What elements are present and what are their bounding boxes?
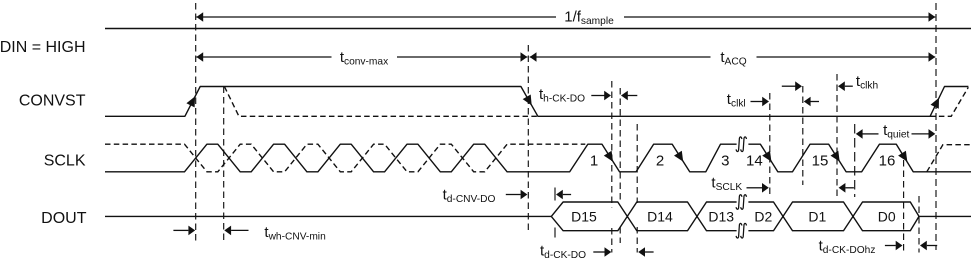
- arrowhead on SCLK falling edge 2: [674, 151, 683, 162]
- ref line: CONVST falling edge x=528.3: [527, 45, 529, 232]
- ref line: SCLK falling edge 15 x=837: [836, 74, 838, 196]
- dimension t_SCLK arrows: [747, 187, 763, 189]
- ref line: next CONVST rising edge x=936: [935, 3, 937, 250]
- DOUT data bus top edge: [551, 202, 919, 216]
- dimension t_clkh arrows: [782, 85, 797, 87]
- svg-text:DOUT: DOUT: [41, 210, 87, 227]
- dimension arrow t_conv-max (left segment): [196, 56, 331, 58]
- wire: DOUT tri-state line (right): [919, 215, 971, 217]
- ref line: DOUT D15 hold end x=620.2 (lower): [619, 227, 621, 243]
- ref line: SCLK falling edge 16 x=903.6: [903, 160, 905, 253]
- break symbol on DOUT bottom edge: [736, 223, 742, 238]
- svg-text:twh-CNV-min: twh-CNV-min: [264, 224, 325, 243]
- ref line: DOUT D15 hold end x=620.2 (upper): [619, 88, 621, 202]
- svg-text:D1: D1: [808, 208, 826, 224]
- svg-text:D14: D14: [647, 208, 673, 224]
- arrowhead on SCLK falling edge 15: [831, 151, 840, 162]
- SCLK waveform (solid): [105, 144, 971, 172]
- ref line: SCLK rising edge 15 x=802.8: [802, 86, 804, 185]
- ref line: SCLK falling edge 14 x=769.8: [769, 93, 771, 196]
- ref line: CONVST min pulse end x=223.7: [223, 87, 225, 242]
- arrowhead on SCLK falling edge 1: [604, 151, 613, 162]
- svg-text:2: 2: [656, 153, 664, 170]
- svg-text:3: 3: [721, 153, 729, 170]
- wire: DOUT tri-state line (left): [105, 215, 551, 217]
- ref line: SCLK falling edge 1 x=611.8 (upper): [611, 81, 613, 207]
- svg-text:15: 15: [812, 153, 829, 170]
- svg-text:1: 1: [590, 153, 598, 170]
- ref line: DOUT D15 valid x=555 (lower): [554, 228, 556, 239]
- svg-text:td-CNV-DO: td-CNV-DO: [443, 186, 496, 205]
- ref line: DOUT D15 valid x=555 (upper): [554, 188, 556, 201]
- svg-text:tquiet: tquiet: [883, 122, 909, 141]
- svg-text:tACQ: tACQ: [720, 49, 746, 68]
- dimension t_d-CK-DO arrows: [593, 251, 605, 253]
- dimension arrow t_conv-max (right segment): [397, 56, 527, 58]
- dimension t_h-CK-DO arrows: [591, 95, 605, 97]
- svg-text:tSCLK: tSCLK: [711, 174, 742, 193]
- svg-text:D0: D0: [878, 208, 896, 224]
- ref line: DOUT high-Z x=919: [918, 196, 920, 253]
- arrowhead on CONVST falling edge: [523, 95, 532, 106]
- svg-text:D13: D13: [708, 208, 734, 224]
- svg-text:tconv-max: tconv-max: [340, 49, 388, 68]
- dimension arrow 1/f_sample (right segment): [624, 16, 935, 18]
- dimension arrow t_ACQ (left segment): [530, 56, 711, 58]
- dimension arrow t_ACQ (right segment): [757, 56, 936, 58]
- CONVST waveform (solid): [105, 87, 968, 117]
- arrowhead on CONVST next rising edge: [931, 98, 940, 109]
- break symbol on SCLK high line: [736, 137, 742, 152]
- wire: DIN high-level line: [105, 28, 971, 30]
- arrowhead on CONVST rising edge: [186, 96, 195, 107]
- svg-text:1/fsample: 1/fsample: [564, 9, 614, 28]
- dimension t_quiet arrows: [856, 129, 863, 139]
- dimension t_d-CK-DOhz arrows: [885, 245, 896, 247]
- svg-text:CONVST: CONVST: [19, 92, 86, 109]
- svg-text:16: 16: [879, 153, 896, 170]
- dimension arrow 1/f_sample (left segment): [196, 16, 556, 18]
- break symbol on DOUT top edge: [736, 195, 742, 210]
- DOUT data bus bottom edge: [551, 216, 919, 230]
- svg-text:D15: D15: [571, 208, 597, 224]
- ref line: DOUT last transition x=854.7: [854, 124, 856, 197]
- svg-text:tclkl: tclkl: [727, 91, 746, 110]
- arrowhead on SCLK falling edge 14: [762, 151, 771, 162]
- svg-text:td-CK-DOhz: td-CK-DOhz: [819, 237, 876, 256]
- SCLK don't-care clocks (dashed): [105, 144, 585, 172]
- CONVST alternate early falling edge (dashed): [224, 87, 537, 117]
- svg-text:SCLK: SCLK: [44, 153, 86, 170]
- CONVST alternate late rising edge (dashed): [930, 87, 968, 116]
- svg-text:tclkh: tclkh: [856, 73, 878, 92]
- ref line: DOUT D14 valid x=637.2 (upper): [636, 124, 638, 203]
- dimension t_clkl arrows: [751, 101, 764, 103]
- svg-text:D2: D2: [754, 208, 772, 224]
- SCLK next frame clock (dashed rise): [927, 145, 971, 172]
- ref line: SCLK falling edge 1 x=611.8 (lower): [611, 228, 613, 253]
- svg-text:DIN = HIGH: DIN = HIGH: [0, 39, 86, 56]
- svg-text:14: 14: [746, 153, 763, 170]
- ref line: DOUT D14 valid x=637.2 (lower): [636, 227, 638, 253]
- dimension t_d-CNV-DO arrows: [506, 194, 521, 196]
- dimension t_wh-CNV-min arrows: [173, 229, 188, 231]
- ref line: CONVST rising edge x=195.7: [195, 3, 197, 241]
- svg-text:th-CK-DO: th-CK-DO: [539, 86, 585, 105]
- arrowhead on SCLK falling edge 16: [898, 151, 907, 162]
- svg-text:td-CK-DO: td-CK-DO: [540, 243, 586, 261]
